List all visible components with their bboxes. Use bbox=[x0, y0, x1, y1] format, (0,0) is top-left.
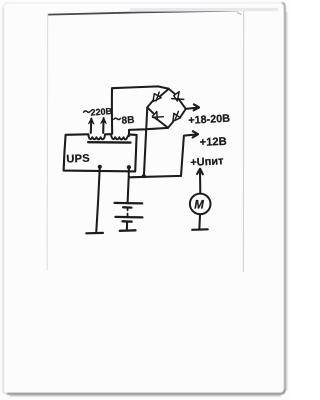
wire motor down bbox=[198, 214, 201, 229]
wire secondary to bridge bottom bbox=[129, 128, 168, 136]
diode bridge frame bbox=[147, 89, 186, 128]
label +18-20V bbox=[188, 113, 230, 127]
label +Upit bbox=[190, 155, 224, 169]
wire bridge minus down bbox=[144, 107, 147, 176]
svg-text:8В: 8В bbox=[121, 115, 134, 127]
motor terminal bar bbox=[192, 228, 208, 231]
photo top edge bbox=[49, 9, 279, 14]
diode bottom-left bbox=[152, 112, 163, 120]
output arrow +18-20V bbox=[186, 104, 199, 110]
label ~8V bbox=[114, 115, 135, 127]
UPS terminal dot left bbox=[98, 165, 102, 169]
battery GB1 bbox=[115, 203, 143, 230]
svg-text:+12В: +12В bbox=[199, 136, 226, 149]
arrow Upit up bbox=[197, 169, 203, 194]
wire secondary to bridge top bbox=[112, 86, 169, 133]
transformer T1 primary winding bbox=[88, 134, 105, 139]
label ~220V bbox=[84, 106, 113, 118]
arrow +12V bbox=[181, 131, 198, 176]
UPS label bbox=[66, 153, 90, 166]
mains input arrow 1 bbox=[88, 118, 94, 133]
svg-text:+18-20В: +18-20В bbox=[188, 113, 230, 127]
transformer T1 secondary winding bbox=[111, 134, 129, 139]
wire common rail bbox=[129, 176, 181, 177]
svg-text:UPS: UPS bbox=[66, 153, 90, 166]
diode bottom-right bbox=[173, 111, 181, 121]
wire UPS right terminal down bbox=[128, 167, 129, 202]
left terminal bar bbox=[86, 232, 103, 235]
battery terminal bar bbox=[120, 229, 136, 232]
photo right edge bbox=[242, 11, 244, 272]
UPS terminal dot right bbox=[127, 165, 131, 169]
label +12V bbox=[199, 136, 226, 149]
junction dot bbox=[142, 174, 146, 178]
svg-text:220В: 220В bbox=[90, 106, 113, 118]
motor M1 bbox=[190, 194, 211, 215]
svg-text:M: M bbox=[194, 200, 204, 212]
wire UPS left terminal down bbox=[96, 167, 100, 232]
svg-text:+Uпит: +Uпит bbox=[190, 155, 224, 169]
transformer T1 core bbox=[88, 141, 130, 144]
UPS box U1 bbox=[64, 134, 137, 171]
diode top-left bbox=[153, 92, 161, 101]
mains input arrow 2 bbox=[101, 118, 107, 133]
photo left edge bbox=[46, 13, 48, 270]
diode top-right bbox=[172, 92, 184, 101]
